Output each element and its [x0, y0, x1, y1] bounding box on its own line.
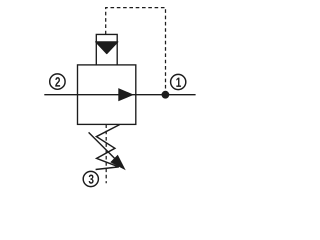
adjustment arrowhead (filled, pointing down-right) — [110, 155, 125, 170]
port 1 circle — [171, 74, 186, 89]
port 3 circle — [83, 171, 98, 186]
pilot poppet triangle (filled, pointing down) — [96, 42, 118, 54]
drain line (dashed) from valve body through spring toward port 3 — [105, 124, 107, 183]
port 1 label — [176, 78, 181, 87]
port 2 circle — [50, 74, 65, 89]
pilot cap box (open bottom, sits on main box top edge) — [96, 34, 117, 65]
port 2 label — [55, 77, 60, 86]
junction dot at node of pilot line and port 1 line — [162, 91, 170, 99]
flow direction arrowhead (filled, pointing right) — [118, 88, 134, 101]
port 3 label — [89, 175, 94, 184]
spring (zigzag) below valve body — [96, 125, 120, 170]
adjustment arrow shaft crossing the spring — [89, 132, 116, 159]
pilot line (dashed) from pilot cap to node at port 1 — [106, 8, 166, 95]
main valve body box — [78, 65, 136, 125]
main flow line from port 2 to port 1 — [44, 94, 195, 96]
